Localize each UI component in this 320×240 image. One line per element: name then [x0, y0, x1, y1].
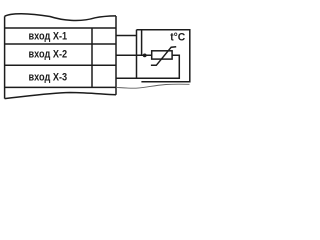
svg-text:вход Х-3: вход Х-3 [29, 72, 68, 84]
svg-text:вход Х-1: вход Х-1 [29, 30, 68, 42]
svg-text:t°C: t°C [170, 32, 185, 44]
svg-text:вход Х-2: вход Х-2 [29, 49, 68, 61]
